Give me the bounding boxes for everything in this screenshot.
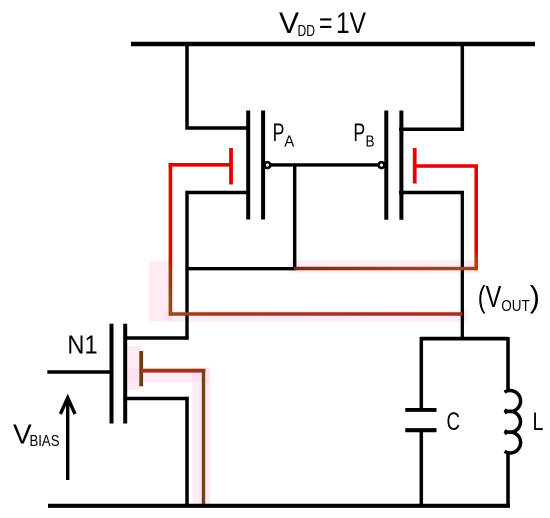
highlight band N1 gate bar (128, 346, 140, 390)
svg-text:P: P (353, 119, 365, 147)
highlight band upper bus (290, 260, 480, 273)
red-brown vertical left (169, 163, 173, 316)
svg-text:B: B (366, 134, 375, 151)
wire N1 source (124, 397, 189, 401)
nmos N1 gate bar (110, 324, 114, 424)
red wire PB gate (415, 164, 478, 168)
capacitor C top plate (405, 408, 436, 412)
highlight band left vertical (149, 261, 174, 321)
wire N1 gate lead (47, 370, 113, 374)
capacitor C bottom plate (405, 428, 436, 432)
pmos PA gate bubble (265, 162, 271, 168)
arrow VBIAS (60, 398, 75, 480)
highlight band N1 gate wire (128, 368, 209, 383)
red gate bar PB (413, 148, 417, 184)
red vertical right (474, 165, 478, 271)
pmos PB channel bar (399, 111, 403, 220)
ground rail bottom (48, 504, 510, 508)
pmos PA channel bar (246, 111, 250, 220)
brown vertical N1 to rail (202, 369, 205, 506)
wire inductor bottom lead (506, 452, 510, 507)
wire N1 source drop (185, 397, 189, 506)
wire PB drain drop to tank (461, 191, 464, 339)
brown gate bar N1 (139, 351, 143, 386)
wire capacitor bottom lead (420, 432, 424, 507)
svg-text:(VOUT): (VOUT) (478, 280, 540, 315)
wire inductor top lead (506, 337, 510, 392)
svg-text:BIAS: BIAS (30, 433, 60, 450)
svg-text:A: A (284, 134, 295, 151)
wire gate tie between bubbles (271, 163, 378, 166)
highlight band lower cross wire (163, 311, 467, 322)
wire drain bus red gradient (294, 267, 478, 271)
wire drain bus black (187, 267, 297, 270)
pmos PB gate bubble (379, 162, 385, 168)
wire N1 drain (124, 336, 189, 340)
wire tank top bar (420, 337, 508, 341)
svg-text:P: P (273, 119, 285, 147)
pmos PB gate bar (384, 111, 388, 220)
inductor L coil (505, 391, 521, 453)
wire rail to PB source (399, 44, 462, 129)
wire capacitor top lead (420, 337, 424, 409)
wire PB drain (399, 191, 462, 194)
wire PA drain (187, 191, 250, 194)
svg-text:=: = (319, 7, 333, 40)
wire center drop (293, 165, 296, 269)
wire PA drain drop to N1 drain (185, 191, 188, 340)
svg-text:N1: N1 (67, 332, 97, 360)
nmos N1 channel bar (123, 324, 127, 424)
dark red wire N1 gate (141, 369, 205, 373)
wire rail to PA source (187, 44, 250, 128)
brown cross wire to Vout (169, 312, 463, 316)
svg-text:L: L (533, 408, 544, 436)
svg-text:DD: DD (298, 23, 316, 40)
svg-text:1V: 1V (336, 7, 366, 40)
pmos PA gate bar (261, 111, 265, 220)
svg-text:C: C (447, 408, 461, 436)
power rail VDD (131, 42, 535, 47)
highlight band N1 brown vertical (193, 368, 211, 506)
red wire PA gate (169, 163, 231, 167)
svg-text:V: V (279, 7, 299, 40)
red gate bar PA (229, 148, 233, 185)
